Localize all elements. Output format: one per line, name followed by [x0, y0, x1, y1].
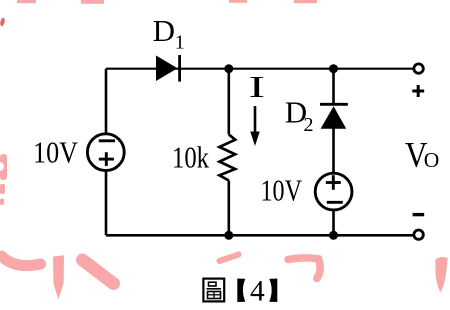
svg-text:10V: 10V: [33, 135, 79, 170]
svg-text:10V: 10V: [261, 173, 303, 208]
svg-text:1: 1: [175, 31, 185, 53]
svg-text:10k: 10k: [172, 140, 209, 175]
svg-text:I: I: [249, 69, 266, 104]
svg-text:4: 4: [250, 275, 265, 308]
svg-text:D: D: [153, 13, 175, 48]
svg-text:2: 2: [304, 114, 314, 136]
svg-text:O: O: [424, 148, 440, 172]
